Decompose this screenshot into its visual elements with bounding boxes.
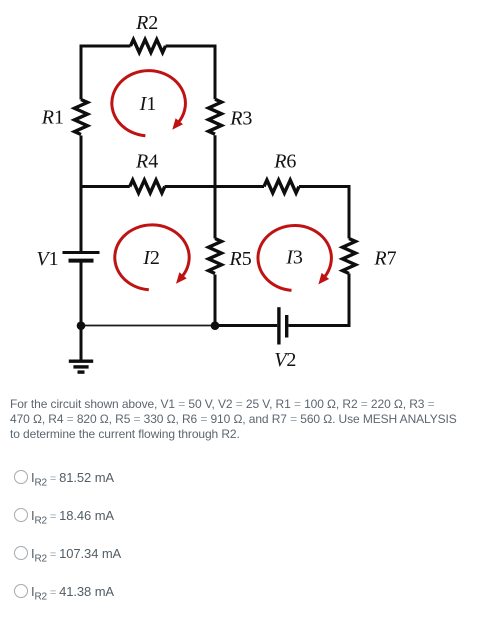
wire middle row left segment bbox=[80, 185, 130, 188]
option 4 bbox=[13, 584, 483, 600]
resistor R1 bbox=[75, 100, 88, 135]
voltage source V2 short plate bbox=[285, 315, 288, 338]
node junction dot left bbox=[77, 321, 86, 330]
svg-text:R7: R7 bbox=[373, 248, 396, 270]
wire bottom segment (V2 to right rail) bbox=[289, 324, 351, 327]
wire middle row center segment bbox=[165, 185, 264, 188]
svg-text:I3: I3 bbox=[285, 247, 303, 269]
svg-text:I1: I1 bbox=[139, 93, 157, 115]
svg-text:R1: R1 bbox=[41, 107, 64, 129]
wire right rail upper bbox=[348, 185, 351, 239]
voltage source V1 short plate bbox=[69, 259, 94, 263]
option 1 bbox=[13, 470, 483, 486]
svg-text:V2: V2 bbox=[274, 349, 296, 371]
svg-text:R6: R6 bbox=[273, 151, 296, 173]
mesh current I1 arrowhead bbox=[172, 118, 183, 130]
ground bar 3 bbox=[78, 370, 85, 373]
svg-text:R4: R4 bbox=[135, 151, 158, 173]
wire bottom thin segment (ground node to middle node) bbox=[81, 325, 215, 327]
option 2 bbox=[13, 508, 483, 524]
mesh current I2 arrowhead bbox=[176, 272, 187, 284]
wire bottom segment (middle node to V2) bbox=[215, 324, 277, 327]
resistor R7 bbox=[343, 239, 356, 274]
mesh current I3 arc bbox=[258, 226, 331, 291]
wire ground stem bbox=[80, 326, 83, 362]
svg-text:R2: R2 bbox=[135, 12, 158, 34]
mesh current I3 arrowhead bbox=[318, 273, 329, 285]
mesh current I1 arc bbox=[112, 71, 186, 136]
resistor R6 bbox=[264, 180, 299, 193]
resistor R5 bbox=[209, 239, 222, 274]
wire middle rail between R3 and middle row bbox=[214, 135, 217, 238]
ground bar 1 bbox=[69, 360, 93, 363]
question text bbox=[10, 397, 457, 442]
voltage source V2 long plate bbox=[277, 307, 280, 344]
wire left rail mid (R1 to V1) bbox=[80, 136, 83, 252]
wire top rail left segment bbox=[81, 45, 131, 48]
wire left rail lower (V1 to bottom node) bbox=[80, 263, 83, 326]
svg-text:I2: I2 bbox=[142, 247, 160, 269]
wire right rail lower bbox=[348, 274, 351, 328]
mesh current I2 arc bbox=[115, 225, 189, 290]
resistor R3 bbox=[209, 99, 222, 134]
ground bar 2 bbox=[73, 365, 88, 368]
wire top rail right segment bbox=[166, 45, 217, 48]
svg-text:R5: R5 bbox=[228, 248, 251, 270]
wire left rail upper bbox=[80, 45, 83, 100]
svg-text:V1: V1 bbox=[36, 248, 58, 270]
option 3 bbox=[13, 546, 483, 562]
voltage source V1 long plate bbox=[63, 251, 100, 254]
wire middle rail upper bbox=[214, 45, 217, 100]
wire middle row right segment bbox=[299, 185, 351, 188]
svg-text:R3: R3 bbox=[229, 108, 252, 130]
wire middle rail lower (R5 to bottom node) bbox=[214, 275, 217, 326]
node junction dot middle bbox=[211, 321, 220, 330]
resistor R4 bbox=[130, 180, 165, 193]
resistor R2 bbox=[131, 40, 166, 53]
